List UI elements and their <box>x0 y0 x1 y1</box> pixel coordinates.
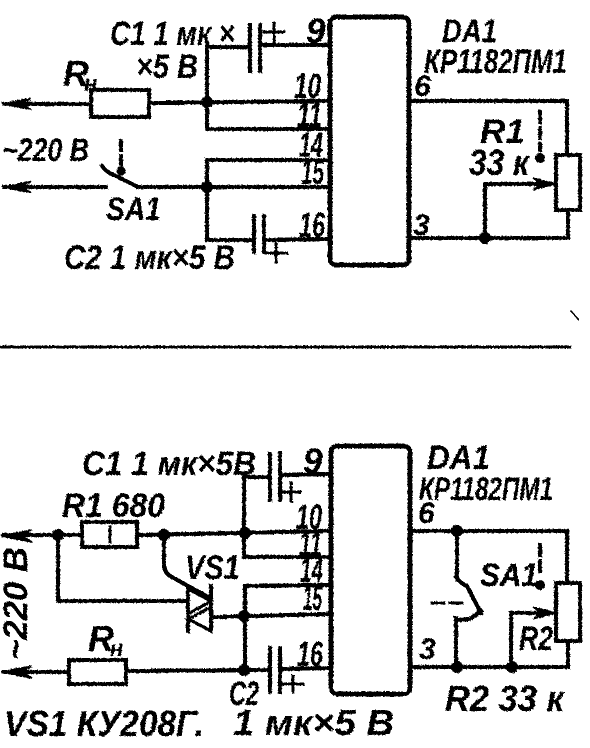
wire pin11 <box>207 127 330 131</box>
wire C1 to pin9 (bottom) <box>280 474 331 475</box>
switch SA1 (bottom) blade <box>456 577 481 613</box>
wire pot R2 bottom lead <box>566 641 570 667</box>
label Rн (top) <box>63 53 97 96</box>
wire C2 to pin16 (bottom) <box>280 668 331 669</box>
label ~220 В (top) <box>2 132 89 168</box>
switch SA1 linkage dashes <box>432 602 462 605</box>
wire Rн to C2 (bottom) <box>126 670 268 671</box>
vertical wire node A up to C1 and down to pin11 <box>205 47 209 129</box>
terminal arrow top-left 1 <box>2 99 31 110</box>
svg-text:9: 9 <box>306 12 326 51</box>
label SA1 (top) <box>106 191 161 227</box>
capacitor C2 (top) plates <box>254 216 264 252</box>
label DA1 (top) <box>442 13 497 49</box>
wire pin3 from IC (bottom) <box>410 665 567 669</box>
pin 9 label (bottom) <box>303 442 323 481</box>
wire pin3 from IC <box>409 236 567 240</box>
capacitor C2 (bottom) plates <box>270 648 280 692</box>
junction dot switch branch <box>451 525 463 537</box>
node B junction dot <box>201 181 213 193</box>
wire C1 left lead <box>207 45 250 49</box>
potentiometer R1 body <box>556 155 580 210</box>
pin 11 label (bottom) <box>299 525 322 564</box>
wire Rн to pin10 <box>149 101 330 103</box>
label DA1 (bottom) <box>427 439 490 477</box>
junction dot left branch <box>52 529 64 541</box>
label R1 680 <box>62 487 165 525</box>
pin 11 label (top) <box>297 96 322 135</box>
op-amp IC DA1 body <box>330 17 409 265</box>
label C1 value line2 (top) <box>136 48 198 86</box>
wire C1 branch vertical <box>242 477 246 557</box>
separator tick <box>571 311 578 319</box>
label VS1 <box>185 549 240 587</box>
svg-text:R1 680: R1 680 <box>62 487 165 525</box>
wire left terminal to R1 680 <box>4 533 82 537</box>
pin 3 label (top) <box>413 209 430 242</box>
svg-text:×5 В: ×5 В <box>136 48 198 86</box>
wire pot R1 bottom lead <box>566 210 570 238</box>
wire C1 left lead (bottom) <box>244 475 270 479</box>
label R2 33 к <box>445 678 566 719</box>
svg-text:VS1: VS1 <box>185 549 240 587</box>
label SA1 (bottom) <box>480 557 538 593</box>
svg-text:3: 3 <box>419 633 436 666</box>
pin 6 label (top) <box>414 70 431 103</box>
wire pin6 from IC (bottom) <box>410 531 567 583</box>
op-amp IC DA1 body (bottom) <box>331 446 410 694</box>
svg-text:SA1: SA1 <box>106 191 161 227</box>
adjustment dashed arrow R2 <box>535 545 545 590</box>
wire pin14 <box>207 158 330 162</box>
switch SA1 (bottom) upper lead <box>455 531 459 580</box>
junction dot pin15 branch <box>238 610 250 622</box>
junction dot C1 branch <box>239 527 251 539</box>
svg-text:C1 1 мк×5В: C1 1 мк×5В <box>82 445 256 483</box>
wire pin11 (bottom) <box>244 555 331 559</box>
terminal arrow top-left 2 <box>2 182 31 193</box>
svg-text:3: 3 <box>413 209 430 242</box>
wire pin9 <box>262 43 330 47</box>
svg-text:R2: R2 <box>519 620 553 658</box>
switch SA1 (bottom) lower contact <box>456 611 481 667</box>
wiper arm of R1 <box>485 178 557 238</box>
wiper arm of R2 <box>511 607 557 667</box>
pin 6 label (bottom) <box>418 497 435 530</box>
pin 10 label (bottom) <box>296 498 322 537</box>
svg-text:33 к: 33 к <box>469 142 531 183</box>
capacitor C1 (top) plates <box>250 25 260 71</box>
label КР1182ПМ1 (top) <box>424 43 567 81</box>
vertical wire node B up to pin14 and down to C2 <box>205 160 209 240</box>
svg-text:~220 В: ~220 В <box>2 132 89 168</box>
triac VS1 <box>188 586 211 631</box>
switch SA1 blade (top) <box>102 166 138 187</box>
wire pin14 (bottom) <box>245 585 331 586</box>
svg-text:16: 16 <box>297 635 323 674</box>
wire C2 left lead <box>207 238 254 242</box>
capacitor C2 polarity plus <box>266 244 287 262</box>
wire pin14 branch vertical <box>243 586 247 670</box>
junction dot pin3/wiper <box>479 232 491 244</box>
pin 9 label (top) <box>306 12 326 51</box>
svg-text:C2 1 мк×5 В: C2 1 мк×5 В <box>64 239 235 277</box>
resistor Rн (top) <box>91 90 149 117</box>
label R1 (top) <box>480 113 525 151</box>
label 33 к (top) <box>469 142 531 183</box>
capacitor C1 (bottom) plates <box>270 453 280 500</box>
adjustment dashed arrow R1 <box>535 112 545 163</box>
terminal arrow bottom-left 2 <box>1 666 32 678</box>
separator line <box>0 346 570 349</box>
pin 15 label (top) <box>301 153 324 192</box>
svg-text:SA1: SA1 <box>480 557 538 593</box>
label ~220 В rotated (bottom) <box>0 547 35 660</box>
svg-text:6: 6 <box>414 70 431 103</box>
svg-text:15: 15 <box>301 153 324 192</box>
label R2 near pot <box>519 620 553 658</box>
wire gate of VS1 <box>164 535 210 598</box>
terminal arrow bottom-left 1 <box>1 530 32 542</box>
capacitor C1 (bottom) plus <box>282 483 300 501</box>
label C2 value (top) <box>64 239 235 277</box>
wire left terminal to Rн (bottom) <box>4 670 69 674</box>
junction dot C2 branch <box>238 664 250 676</box>
svg-text:VS1 КУ208Г.: VS1 КУ208Г. <box>4 703 204 744</box>
wire pin6 from IC <box>409 101 567 155</box>
pin 3 label (bottom) <box>419 633 436 666</box>
wire triac MT2 to pin15 <box>213 614 331 617</box>
label КР1182ПМ1 (bottom) <box>419 471 553 507</box>
junction dot gate branch <box>158 529 170 541</box>
capacitor C2 (bottom) plus <box>283 676 303 692</box>
label C1 value (bottom) <box>82 445 256 483</box>
svg-text:н: н <box>110 636 123 661</box>
svg-text:1 мк×5 В: 1 мк×5 В <box>233 702 394 743</box>
svg-text:н: н <box>84 71 97 96</box>
svg-text:9: 9 <box>303 442 323 481</box>
svg-text:6: 6 <box>418 497 435 530</box>
svg-text:КР1182ПМ1: КР1182ПМ1 <box>419 471 553 507</box>
wire down-left to triac MT1 <box>58 535 188 601</box>
potentiometer R2 body <box>556 583 580 641</box>
resistor Rн (bottom) <box>69 660 126 684</box>
svg-text:16: 16 <box>299 206 325 245</box>
junction dot pin3/wiper (bottom) <box>506 661 518 673</box>
wire left terminal 2 to switch <box>4 185 106 189</box>
switch SA1 actuator dashed line (top) <box>117 141 126 176</box>
wire C2 to pin16 <box>264 239 330 240</box>
label C2 (bottom) <box>229 675 259 713</box>
pin 16 label (top) <box>299 206 325 245</box>
capacitor C1 polarity plus <box>264 23 284 42</box>
label VS1 КУ208Г. <box>4 703 204 744</box>
node A junction dot <box>201 96 213 108</box>
svg-text:КР1182ПМ1: КР1182ПМ1 <box>424 43 567 81</box>
resistor R1 680 body <box>82 522 137 547</box>
wire left terminal to Rн <box>4 102 91 106</box>
svg-text:R2 33 к: R2 33 к <box>445 678 566 719</box>
wire switch to pin15 <box>138 185 330 189</box>
pin 10 label (top) <box>294 67 321 106</box>
svg-text:15: 15 <box>303 579 322 618</box>
pin 16 label (bottom) <box>297 635 323 674</box>
pin 14 label (bottom) <box>300 551 323 590</box>
label Rн (bottom) <box>88 618 123 661</box>
junction dot pin3/switch <box>451 661 463 673</box>
pin 15 label (bottom) <box>303 579 322 618</box>
label 1 мк×5 В (bottom) <box>233 702 394 743</box>
pin 14 label (top) <box>299 126 323 165</box>
svg-text:~220 В: ~220 В <box>0 547 35 660</box>
wire R1 to pin10 <box>137 531 331 535</box>
label C1 value (top) <box>110 15 235 53</box>
